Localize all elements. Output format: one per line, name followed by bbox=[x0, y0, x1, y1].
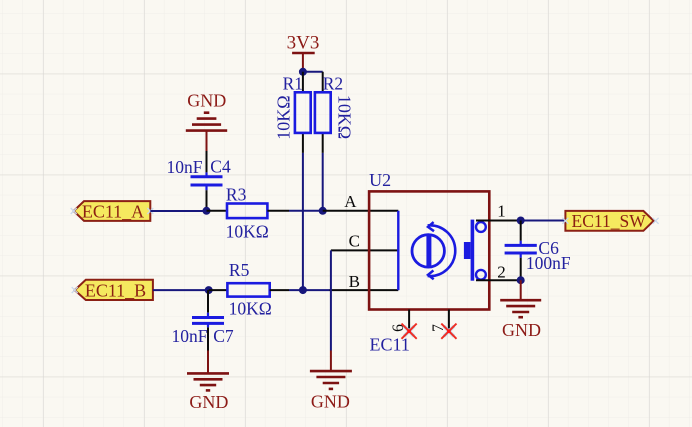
pin C bbox=[331, 232, 398, 251]
wire R3 to pin A bbox=[289, 210, 323, 212]
resistor R5 bbox=[209, 260, 289, 319]
svg-text:10KΩ: 10KΩ bbox=[335, 95, 355, 139]
svg-text:GND: GND bbox=[189, 392, 228, 412]
ground GND middle bbox=[310, 351, 352, 412]
ground GND top (inverted earth) bbox=[186, 91, 227, 151]
junction pin 2 node bbox=[517, 276, 525, 284]
pin 2 bbox=[476, 263, 521, 282]
svg-text:EC11_A: EC11_A bbox=[82, 201, 144, 221]
wire pin C to GND bbox=[330, 250, 332, 350]
svg-text:10KΩ: 10KΩ bbox=[229, 298, 272, 318]
svg-text:U2: U2 bbox=[369, 170, 391, 190]
wire pin1 to EC11_SW bbox=[521, 220, 566, 222]
component U2 body bbox=[369, 170, 489, 310]
junction top (3V3 node) bbox=[299, 68, 307, 76]
junction EC11_B node bbox=[205, 286, 213, 294]
net flag EC11_B bbox=[72, 280, 153, 301]
capacitor C7 bbox=[172, 290, 234, 350]
net flag EC11_SW bbox=[562, 211, 658, 231]
svg-text:EC11: EC11 bbox=[370, 334, 410, 354]
wire R5 to pin B bbox=[289, 289, 330, 291]
svg-text:C4: C4 bbox=[210, 157, 231, 177]
resistor R2 bbox=[315, 72, 355, 153]
tactile switch of U2 bbox=[464, 220, 486, 281]
rotary encoder symbol bbox=[412, 222, 455, 279]
pin A bbox=[323, 192, 399, 211]
junction pin B node bbox=[299, 286, 307, 294]
pin 6 of U2 bbox=[390, 310, 409, 332]
U2 inner common line bbox=[397, 211, 399, 290]
svg-text:EC11_B: EC11_B bbox=[85, 280, 146, 300]
wire 3V3 jog to R2 bbox=[303, 71, 323, 73]
ground GND bottom-left bbox=[187, 351, 229, 413]
junction pin 1 node bbox=[517, 217, 525, 225]
svg-text:GND: GND bbox=[502, 320, 541, 340]
svg-text:10nF: 10nF bbox=[172, 326, 208, 346]
power port 3V3 bbox=[287, 33, 320, 72]
net flag EC11_A bbox=[71, 201, 154, 221]
resistor R3 bbox=[207, 184, 290, 241]
svg-text:10KΩ: 10KΩ bbox=[226, 222, 269, 242]
svg-text:2: 2 bbox=[497, 263, 506, 282]
svg-text:R2: R2 bbox=[323, 74, 343, 94]
resistor R1 bbox=[273, 72, 310, 153]
svg-text:C: C bbox=[349, 232, 360, 251]
ground GND right bbox=[500, 280, 541, 340]
pin 7 of U2 bbox=[430, 310, 449, 332]
svg-text:10KΩ: 10KΩ bbox=[273, 95, 293, 139]
svg-text:100nF: 100nF bbox=[526, 253, 571, 273]
junction EC11_A node bbox=[203, 207, 211, 215]
svg-text:R1: R1 bbox=[283, 74, 303, 94]
capacitor C6 bbox=[505, 221, 571, 281]
pin 1 bbox=[476, 202, 521, 221]
svg-text:EC11_SW: EC11_SW bbox=[572, 211, 647, 231]
svg-text:10nF: 10nF bbox=[167, 157, 203, 177]
svg-text:GND: GND bbox=[311, 391, 350, 411]
svg-text:3V3: 3V3 bbox=[287, 33, 320, 54]
junction pin A node bbox=[319, 207, 327, 215]
svg-text:B: B bbox=[349, 272, 360, 291]
wire R1 to EC11_B row bbox=[302, 153, 304, 290]
no-connect marker pin 6 bbox=[402, 324, 417, 339]
svg-text:1: 1 bbox=[497, 202, 506, 221]
wire R2 to EC11_A row bbox=[322, 153, 324, 211]
capacitor C4 bbox=[167, 151, 231, 211]
svg-text:A: A bbox=[344, 192, 357, 211]
wire EC11_A to junction bbox=[150, 210, 206, 212]
no-connect marker pin 7 bbox=[441, 324, 456, 339]
pin B bbox=[330, 272, 399, 291]
svg-text:C7: C7 bbox=[213, 326, 234, 346]
svg-text:GND: GND bbox=[187, 91, 226, 111]
svg-text:R5: R5 bbox=[229, 260, 250, 280]
wire EC11_B to junction bbox=[153, 289, 209, 291]
svg-text:R3: R3 bbox=[226, 184, 247, 204]
